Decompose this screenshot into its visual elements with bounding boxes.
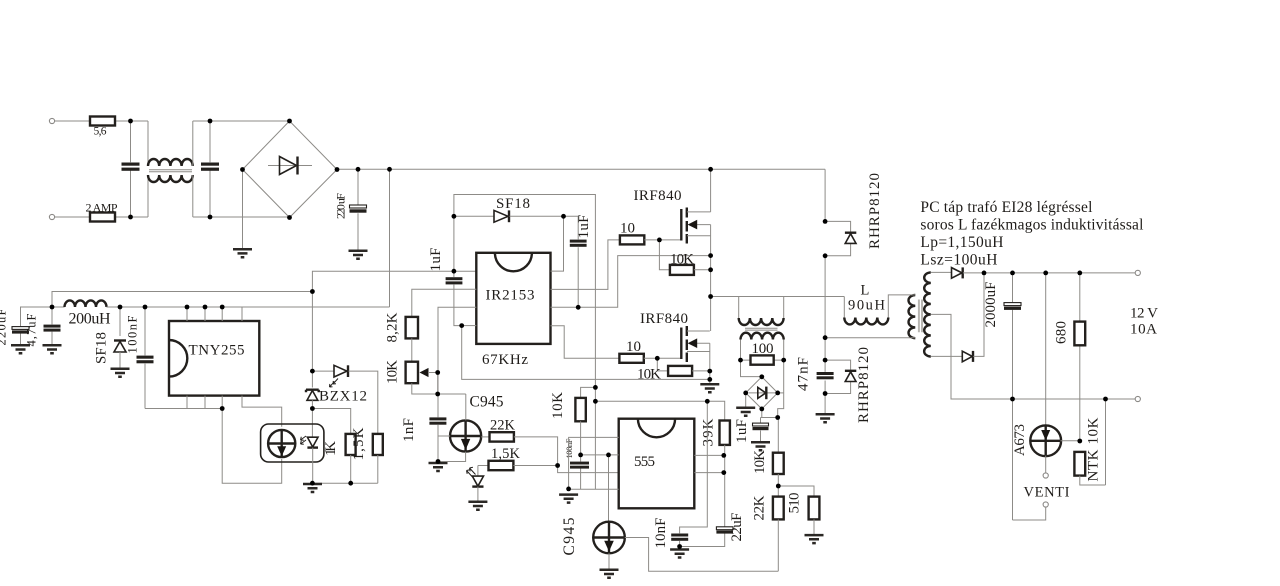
LED arrows: [467, 467, 476, 477]
wire discharge drive: [608, 455, 610, 523]
transistor Q2 IRF840 lower: [680, 328, 682, 360]
IC U1 TNY255: [169, 321, 259, 396]
node 777.7,392.9: [775, 391, 780, 396]
transistor Q5 C945 limiter: [593, 522, 625, 554]
svg-text:12 V: 12 V: [1130, 306, 1158, 322]
wire threshold bus: [581, 454, 619, 456]
diode SF18 left: [119, 307, 121, 336]
wire B1 left to ground: [242, 170, 244, 249]
wire choke right top: [193, 121, 290, 166]
capacitor 220uF left: [21, 307, 53, 345]
wire gate upper: [644, 239, 681, 241]
node 1079.8,272.9: [1077, 271, 1082, 276]
svg-text:8,2K: 8,2K: [385, 312, 401, 342]
node 710.6,255.6: [708, 253, 713, 258]
wire opto LED anode: [311, 409, 313, 437]
capacitor 10nF: [680, 401, 708, 533]
terminal VENTI+: [1043, 473, 1048, 478]
node 761.8,376.8: [759, 374, 764, 379]
wire zener to 1K: [312, 409, 350, 434]
svg-text:22K: 22K: [490, 418, 516, 434]
resistor 10 lower: [619, 354, 643, 363]
wire pot bottom: [412, 383, 466, 394]
pin RT route: [412, 289, 477, 317]
SEC1:AC-INPUT: [49, 117, 825, 259]
node 289.5,121: [287, 119, 292, 124]
wire bias rail y291: [52, 292, 312, 308]
LED indicator: [477, 466, 479, 476]
resistor 10 upper: [620, 235, 644, 244]
zener BZX12: [311, 371, 313, 387]
ground 1nF: [429, 463, 448, 471]
svg-text:10: 10: [626, 339, 641, 355]
svg-text:2 AMP: 2 AMP: [86, 201, 118, 215]
diode D2 output bottom: [962, 351, 972, 362]
svg-text:1uF: 1uF: [734, 419, 750, 443]
node 723.8,455.4: [721, 453, 726, 458]
node 210,121: [208, 119, 213, 124]
node 389.5,169.3: [387, 167, 392, 172]
wire TNY bottom to 100nF: [145, 408, 222, 410]
svg-text:SF18: SF18: [94, 332, 110, 364]
node 825.1,221.4: [823, 219, 828, 224]
node 709.8,371.1: [707, 369, 712, 374]
wire A673 base: [1061, 440, 1080, 442]
wire +12V rail: [984, 272, 1137, 274]
thermistor NTK 10K: [1074, 452, 1085, 476]
svg-text:90uH: 90uH: [848, 298, 886, 314]
node 222.2,307: [220, 305, 225, 310]
svg-text:Lp=1,150uH: Lp=1,150uH: [920, 234, 1003, 251]
node 777.7,417.5: [775, 415, 780, 420]
ground SF18: [111, 369, 130, 377]
node 595.4,387.4: [593, 385, 598, 390]
resistor 10K gate lower: [657, 358, 668, 371]
svg-text:10K: 10K: [752, 450, 768, 474]
svg-text:10K: 10K: [550, 392, 566, 419]
SEC5:SNUBBER-CT: [711, 169, 911, 450]
svg-text:67KHz: 67KHz: [482, 352, 528, 368]
wire choke right bottom: [193, 175, 290, 217]
resistor 100: [741, 359, 784, 361]
resistor 22K divider: [773, 497, 784, 520]
node 761.8,408.9: [759, 407, 764, 412]
node 52,307: [50, 305, 55, 310]
wire C945 emitter: [438, 452, 466, 462]
svg-text:555: 555: [634, 454, 655, 470]
wire B2 bottom to 1uF: [761, 409, 763, 418]
wire center tap: [931, 314, 1137, 399]
SEC7:555: [438, 387, 824, 577]
wire CT node A to bridge2 top: [741, 360, 762, 377]
opto LED: [307, 437, 318, 447]
node 312.4,483.2: [310, 481, 315, 486]
capacitor 47nF: [824, 360, 826, 393]
ground halfbridge: [700, 384, 719, 392]
svg-text:RHRP8120: RHRP8120: [867, 173, 883, 249]
ground 4,7uF: [43, 345, 62, 353]
pin VS route: [551, 256, 711, 308]
SEC3:IR2153: [385, 195, 711, 490]
svg-text:1uF: 1uF: [428, 248, 444, 272]
node 825.1,393.5: [823, 391, 828, 396]
inductor L 90uH: [843, 297, 845, 318]
node 1012.5,272.9: [1010, 271, 1015, 276]
wire to transformer primary bottom: [825, 337, 910, 339]
capacitor 4,7uF: [51, 307, 53, 345]
diode inside B2: [749, 392, 776, 394]
wire 8,2K to pot: [411, 338, 413, 361]
wire TNY drain pin4 riser: [389, 169, 391, 307]
wire B2 right stub: [778, 392, 784, 394]
current transformer CT top winding: [710, 296, 712, 298]
node 289.5,217.5: [287, 215, 292, 220]
inductor common-mode choke top winding: [148, 159, 193, 166]
node 337,169.5: [335, 167, 340, 172]
node 242.5,169.5: [240, 167, 245, 172]
diode inside B1: [268, 165, 312, 167]
svg-text:200uH: 200uH: [69, 311, 111, 328]
node 1045.7,272.9: [1043, 271, 1048, 276]
pin stubs 555 right: [694, 455, 724, 472]
svg-text:L: L: [861, 283, 870, 299]
wire 555 gnd pin: [569, 488, 619, 490]
capacitor X1: [130, 121, 132, 217]
wire rc top rail: [595, 401, 724, 420]
svg-text:BZX12: BZX12: [319, 389, 367, 405]
svg-text:C945: C945: [470, 394, 504, 411]
ground 10nF: [670, 550, 689, 558]
node 358,169.3: [356, 167, 361, 172]
wire bias to IR2153 VCC: [312, 271, 476, 291]
node 222.2,408.5: [220, 406, 225, 411]
wire source lower to ground: [709, 343, 711, 383]
node 825.1,255.8: [823, 253, 828, 258]
wire secondary top to D1: [931, 271, 952, 273]
ground 220uF: [349, 251, 368, 259]
node 563.5,216.3: [561, 214, 566, 219]
wire node 300V/bias junction: [52, 306, 65, 308]
node 210,217: [208, 215, 213, 220]
capacitor 1uF boot: [577, 216, 579, 307]
svg-text:47nF: 47nF: [796, 357, 812, 391]
svg-text:5,6: 5,6: [94, 126, 107, 138]
node 984,272.9: [982, 271, 987, 276]
svg-text:soros L fazékmagos induktivitá: soros L fazékmagos induktivitással: [920, 217, 1143, 234]
svg-text:C945: C945: [561, 517, 578, 555]
wire B2 left to ground: [745, 393, 747, 407]
node 710.6,169.3: [708, 167, 713, 172]
ground 47nF: [816, 414, 835, 422]
bridge rectifier B1 outline: [243, 121, 338, 218]
node 710.6,296.5: [708, 294, 713, 299]
svg-text:1K: 1K: [323, 441, 339, 456]
diode LED D3 horizontal: [312, 370, 333, 372]
svg-text:1,5K: 1,5K: [491, 446, 521, 462]
svg-text:220uF: 220uF: [0, 308, 9, 345]
inductor common-mode choke bottom winding: [148, 175, 193, 182]
svg-text:510: 510: [787, 493, 803, 514]
svg-text:680: 680: [1054, 321, 1070, 344]
wire Q5 base route: [625, 538, 779, 572]
svg-text:2000uF: 2000uF: [983, 282, 999, 328]
resistor 39K: [720, 421, 730, 445]
ground 1uF ct: [751, 442, 770, 450]
svg-text:220 uF: 220 uF: [334, 193, 348, 219]
wire Q5 emitter: [608, 553, 610, 569]
wire CT node B to 1uF node: [778, 360, 784, 417]
resistor 10K rc: [581, 387, 596, 398]
ground B2: [736, 408, 755, 416]
node 659.4,239.9: [657, 238, 662, 243]
transistor Q1 IRF840 upper: [680, 209, 682, 241]
LED D3 arrows: [330, 379, 339, 388]
svg-text:A673: A673: [1012, 424, 1028, 456]
capacitor 1nF: [437, 425, 439, 462]
ground 510: [805, 535, 824, 543]
svg-text:NTK 10K: NTK 10K: [1086, 417, 1102, 481]
terminal AC-N: [49, 214, 54, 219]
node 187,307: [185, 305, 190, 310]
node 778.3,486: [776, 484, 781, 489]
diode RHRP8120 upper: [824, 169, 826, 221]
optocoupler U2 box: [261, 424, 324, 462]
resistor 8,2K: [406, 317, 418, 339]
ground LED: [468, 502, 487, 510]
wire vmain top: [454, 195, 596, 490]
capacitor 100nF timing: [580, 455, 582, 489]
wire C945 collector: [465, 394, 467, 420]
svg-text:VENTI: VENTI: [1024, 485, 1070, 501]
node 453.9,271.2: [452, 269, 457, 274]
node 130.5,121: [128, 119, 133, 124]
capacitor 2000uF: [1012, 273, 1014, 399]
node 825.1,337.7: [823, 335, 828, 340]
diode RHRP8120 lower: [825, 360, 851, 393]
svg-text:Lsz=100uH: Lsz=100uH: [920, 251, 997, 268]
node 437.7,372.5: [435, 370, 440, 375]
transformer T1 secondary: [924, 272, 931, 356]
resistor 1,5K pwm: [478, 465, 489, 467]
svg-text:22uF: 22uF: [729, 513, 745, 542]
wire AC top: [55, 121, 148, 165]
wire rail to primary return: [824, 256, 826, 360]
choke core: [149, 170, 192, 172]
resistor 5,6: [90, 117, 115, 126]
svg-text:39K: 39K: [701, 418, 717, 446]
SEC8:DOTS: [50, 119, 1108, 549]
resistor 510: [778, 486, 814, 497]
node 825.1,360.1: [823, 358, 828, 363]
svg-text:IR2153: IR2153: [486, 288, 535, 304]
resistor 22K pwm: [481, 436, 489, 438]
node 1079.8,441: [1077, 439, 1082, 444]
inductor 200uH: [65, 300, 107, 307]
ground feedback: [303, 484, 322, 492]
capacitor 220uF bulk: [357, 169, 359, 250]
potentiometer 10K: [406, 362, 418, 384]
node 707.3,401.3: [705, 399, 710, 404]
svg-text:RHRP8120: RHRP8120: [856, 347, 872, 423]
wire halfbridge mid: [710, 225, 712, 331]
wire 555 trigger: [558, 466, 619, 473]
terminal VENTI-: [1043, 502, 1048, 507]
node 453.9,216.3: [452, 214, 457, 219]
svg-text:100nF: 100nF: [126, 315, 140, 353]
transistor Q3 C945 pwm: [450, 420, 481, 451]
diode SF18 boost: [454, 215, 494, 217]
node 783.7,360.1: [781, 358, 786, 363]
node 709.8,379.4: [707, 377, 712, 382]
node 350.7,483.2: [348, 481, 353, 486]
node 145,307: [143, 305, 148, 310]
IC U4 555: [619, 419, 695, 509]
bridge rectifier B2 outline: [746, 377, 778, 409]
node 679.6,546.5: [677, 544, 682, 549]
node 578.2,307.3: [576, 305, 581, 310]
terminal 0V: [1135, 396, 1140, 401]
node 580.6,454.9: [578, 453, 583, 458]
capacitor X2: [209, 121, 211, 217]
svg-text:1nF: 1nF: [401, 418, 417, 442]
svg-text:SF18: SF18: [496, 196, 530, 212]
SEC4:HALFBRIDGE: [634, 169, 845, 392]
svg-text:1uF: 1uF: [576, 215, 592, 239]
node 438,461.5: [436, 459, 441, 464]
wire zener chain top: [311, 292, 313, 372]
wire secondary bottom to D2: [931, 355, 963, 357]
pin HO route: [551, 240, 620, 290]
transistor Q4 A673: [1045, 273, 1047, 426]
resistor 680: [1079, 273, 1081, 441]
svg-text:10: 10: [620, 221, 635, 237]
pin stubs TNY top: [187, 307, 242, 321]
wire feedback ground bus: [312, 482, 377, 484]
wire wiper drop: [437, 373, 439, 395]
resistor 10K divider: [777, 418, 779, 453]
wire VENTI return: [1013, 399, 1046, 520]
wire A673 emitter: [1045, 456, 1047, 473]
terminal AC-L: [49, 118, 54, 123]
SEC2:TNY: [0, 169, 476, 492]
wire CT pin route: [438, 307, 476, 417]
svg-text:1,5K: 1,5K: [351, 427, 367, 460]
capacitor 1uF ct: [761, 418, 779, 442]
node 657.3,358.3: [655, 356, 660, 361]
node 745.7,392.9: [743, 391, 748, 396]
capacitor 100nF: [144, 307, 146, 409]
IC U3 IR2153: [476, 253, 550, 344]
fuse 2 AMP: [90, 213, 115, 222]
ground Q5: [600, 570, 619, 578]
node 710.6,269.8: [708, 267, 713, 272]
node 608.5,454.9: [606, 453, 611, 458]
node 568.6,488.9: [566, 487, 571, 492]
pin stub VB: [551, 216, 564, 271]
svg-text:10K: 10K: [637, 367, 661, 383]
wire DC+ rail: [337, 168, 825, 170]
pin LO route: [551, 326, 620, 359]
node 1012.5,399: [1010, 397, 1015, 402]
svg-text:TNY255: TNY255: [189, 343, 245, 359]
wire 300V rail to TNY: [107, 306, 390, 308]
transformer T1 primary: [909, 295, 916, 338]
wire COM to ground bus H1: [462, 326, 710, 380]
svg-text:IRF840: IRF840: [634, 188, 682, 204]
wire 47nF to ground: [824, 394, 826, 414]
svg-text:10K: 10K: [385, 360, 401, 384]
node 205,307: [203, 305, 208, 310]
resistor 1,5K opto: [373, 434, 383, 455]
node 595.4,401.3: [593, 399, 598, 404]
SEC6:OUTPUT: [909, 199, 1159, 520]
wire AC bottom: [55, 176, 148, 217]
resistor 10K gate upper: [659, 240, 670, 270]
resistor 1K: [346, 434, 356, 455]
svg-text:10A: 10A: [1130, 322, 1157, 338]
svg-text:4,7uF: 4,7uF: [25, 313, 39, 346]
CT bottom winding: [741, 333, 784, 340]
transformer T1 core: [919, 300, 922, 333]
node 461.7,325.6: [459, 323, 464, 328]
diode D1 output top: [952, 268, 963, 279]
wire opto collector route: [242, 396, 282, 427]
wire mid node out: [711, 296, 845, 298]
node 120,307: [118, 305, 123, 310]
svg-text:PC táp trafó EI28 légréssel: PC táp trafó EI28 légréssel: [920, 199, 1092, 216]
svg-text:100: 100: [752, 341, 774, 357]
capacitor 22uF: [680, 533, 725, 546]
wire opto emitter route: [222, 409, 282, 484]
pin stub COM left: [462, 325, 477, 327]
node 312.4,371.1: [310, 369, 315, 374]
svg-text:IRF840: IRF840: [640, 311, 688, 327]
wire gate lower: [644, 357, 681, 359]
capacitor 1uF vcc: [454, 216, 462, 325]
CT core: [745, 328, 778, 330]
node 437.7,394: [435, 392, 440, 397]
wire drain upper: [710, 169, 712, 212]
node 740.5,360.1: [738, 358, 743, 363]
opto transistor: [268, 430, 295, 457]
svg-text:10nF: 10nF: [653, 518, 669, 549]
terminal +12V: [1135, 270, 1140, 275]
node 557.6,465.5: [555, 463, 560, 468]
node 130.5,217: [128, 215, 133, 220]
ground B1: [233, 249, 252, 257]
ground 220uF left: [11, 345, 30, 353]
node 312.4,408.5: [310, 406, 315, 411]
svg-text:22K: 22K: [752, 495, 768, 520]
opto LED arrows: [301, 436, 307, 444]
node 312.4,291.5: [310, 289, 315, 294]
node 1105.5,399: [1103, 397, 1108, 402]
ground 555: [559, 495, 578, 503]
node 723.8,472.6: [721, 470, 726, 475]
pin stubs TNY bottom: [187, 396, 222, 409]
svg-text:10K: 10K: [670, 252, 694, 268]
wire 555 reset/vcc pin: [569, 437, 619, 489]
wire C945 base stub: [438, 435, 450, 437]
